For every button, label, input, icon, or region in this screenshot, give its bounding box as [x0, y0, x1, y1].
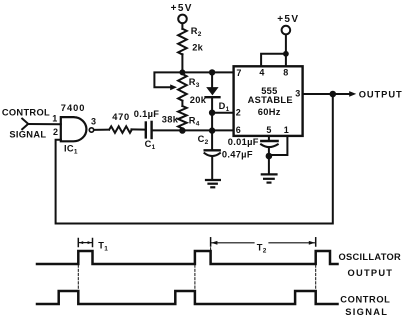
output arrowhead	[349, 91, 356, 97]
wire: R2 to node A	[181, 54, 183, 72]
dashed alignment line 3	[315, 265, 317, 290]
junction: pin7 rail / D1	[209, 69, 215, 75]
svg-text:2k: 2k	[192, 43, 203, 53]
wire: gate output to 470 resistor	[94, 129, 109, 131]
svg-text:OUTPUT: OUTPUT	[348, 268, 394, 278]
R3 wiper arrowhead	[170, 84, 177, 90]
wire: D1 cathode to pin 2 node	[211, 97, 213, 130]
svg-text:470: 470	[112, 112, 130, 122]
svg-text:5: 5	[266, 125, 271, 135]
svg-text:1: 1	[284, 125, 289, 135]
wire: to 555 pin 2	[212, 112, 234, 114]
diode D1	[206, 87, 218, 95]
wire: +5V down to pins 4/8	[285, 35, 287, 67]
dashed alignment line 4	[210, 244, 212, 251]
node: control signal input arrow	[22, 119, 28, 130]
IC U2: 555 box	[234, 66, 303, 136]
waveform: control signal trace	[37, 291, 338, 304]
svg-text:38k: 38k	[162, 115, 179, 125]
svg-text:+5V: +5V	[277, 14, 299, 25]
svg-text:7400: 7400	[61, 103, 86, 113]
svg-text:2: 2	[53, 127, 58, 137]
svg-text:SIGNAL: SIGNAL	[345, 307, 388, 317]
svg-text:4: 4	[259, 68, 264, 78]
wire: bracket to pin 4	[261, 54, 286, 67]
svg-text:SIGNAL: SIGNAL	[9, 130, 46, 140]
svg-text:60Hz: 60Hz	[258, 107, 281, 117]
junction: rail / C2	[209, 127, 215, 133]
svg-text:OSCILLATOR: OSCILLATOR	[339, 252, 402, 262]
wire: output arrow	[333, 93, 350, 95]
svg-text:IC1: IC1	[64, 143, 78, 155]
wire: 555 pin 3 to output node	[303, 93, 333, 95]
svg-text:1: 1	[52, 113, 57, 123]
junction: pin1/pin5 ground node	[266, 153, 273, 160]
svg-text:OUTPUT: OUTPUT	[359, 89, 403, 99]
svg-text:CONTROL: CONTROL	[340, 295, 390, 305]
svg-text:20k: 20k	[190, 95, 207, 105]
dashed alignment line 1	[77, 265, 79, 290]
wire: control signal to IC1 pin 1	[28, 123, 61, 125]
resistor 470	[109, 126, 132, 133]
svg-text:D1: D1	[219, 101, 230, 113]
capacitor C1	[146, 122, 152, 138]
wire: 555 pin 5 stub	[268, 136, 270, 140]
wire: rail to C2	[211, 131, 213, 150]
capacitor 0.01uF	[261, 140, 277, 142]
wire: 555 pin 1 to ground node	[271, 136, 287, 155]
capacitor C2	[205, 149, 220, 151]
svg-text:R4: R4	[189, 115, 200, 127]
svg-text:C2: C2	[198, 134, 209, 146]
svg-text:3: 3	[295, 88, 300, 98]
ground (555)	[262, 174, 277, 182]
wire: cap to ground node	[268, 147, 270, 174]
resistor R4	[178, 106, 187, 128]
svg-text:+5V: +5V	[171, 3, 193, 14]
wire: C1 to 555 pin 6 (main rail)	[153, 129, 234, 131]
dashed alignment line 2	[194, 265, 196, 290]
svg-text:7: 7	[236, 68, 241, 78]
junction node A (R2/R3/pin7)	[179, 69, 185, 75]
wire: R3 to R4	[181, 101, 183, 106]
svg-text:0.01µF: 0.01µF	[228, 137, 259, 147]
T1 dimension ticks	[78, 239, 92, 247]
junction: rail / R4	[179, 127, 185, 133]
T2 arrowheads	[211, 241, 217, 245]
svg-text:T2: T2	[257, 242, 267, 254]
svg-text:R3: R3	[189, 77, 200, 89]
wire: feedback loop output to IC1 pin 2	[56, 94, 333, 224]
T2 dimension ticks	[211, 238, 316, 246]
svg-text:2: 2	[236, 107, 241, 117]
wire: +5V to R2	[181, 23, 183, 28]
NAND output bubble	[89, 128, 93, 132]
gate IC1: 7400 NAND body	[61, 117, 87, 141]
wire: R3 wiper loop	[154, 72, 182, 87]
svg-text:CONTROL: CONTROL	[2, 108, 50, 118]
resistor R2	[178, 29, 187, 55]
ground (C2)	[206, 180, 220, 187]
svg-text:T1: T1	[98, 240, 108, 252]
svg-text:0.1µF: 0.1µF	[134, 109, 159, 119]
svg-text:R2: R2	[191, 26, 202, 38]
svg-text:6: 6	[236, 125, 241, 135]
waveform: oscillator output trace	[37, 251, 338, 264]
svg-text:0.47µF: 0.47µF	[222, 149, 253, 159]
junction: D1 / pin 2 wire	[209, 110, 215, 116]
wire: node A to 555 pin 7	[182, 71, 233, 73]
junction: +5V / pin4 bracket	[283, 51, 289, 57]
svg-text:C1: C1	[145, 139, 156, 151]
wire: R4 to rail	[181, 128, 183, 130]
junction: output node	[330, 91, 337, 98]
T1 arrowheads	[79, 241, 83, 244]
svg-text:ASTABLE: ASTABLE	[248, 95, 293, 105]
svg-text:8: 8	[283, 68, 288, 78]
resistor R3	[178, 74, 187, 101]
wire: C2 to ground	[211, 156, 213, 179]
svg-text:3: 3	[91, 117, 96, 127]
wire: 470 to C1	[131, 128, 144, 130]
wire: node A to D1	[211, 72, 213, 87]
